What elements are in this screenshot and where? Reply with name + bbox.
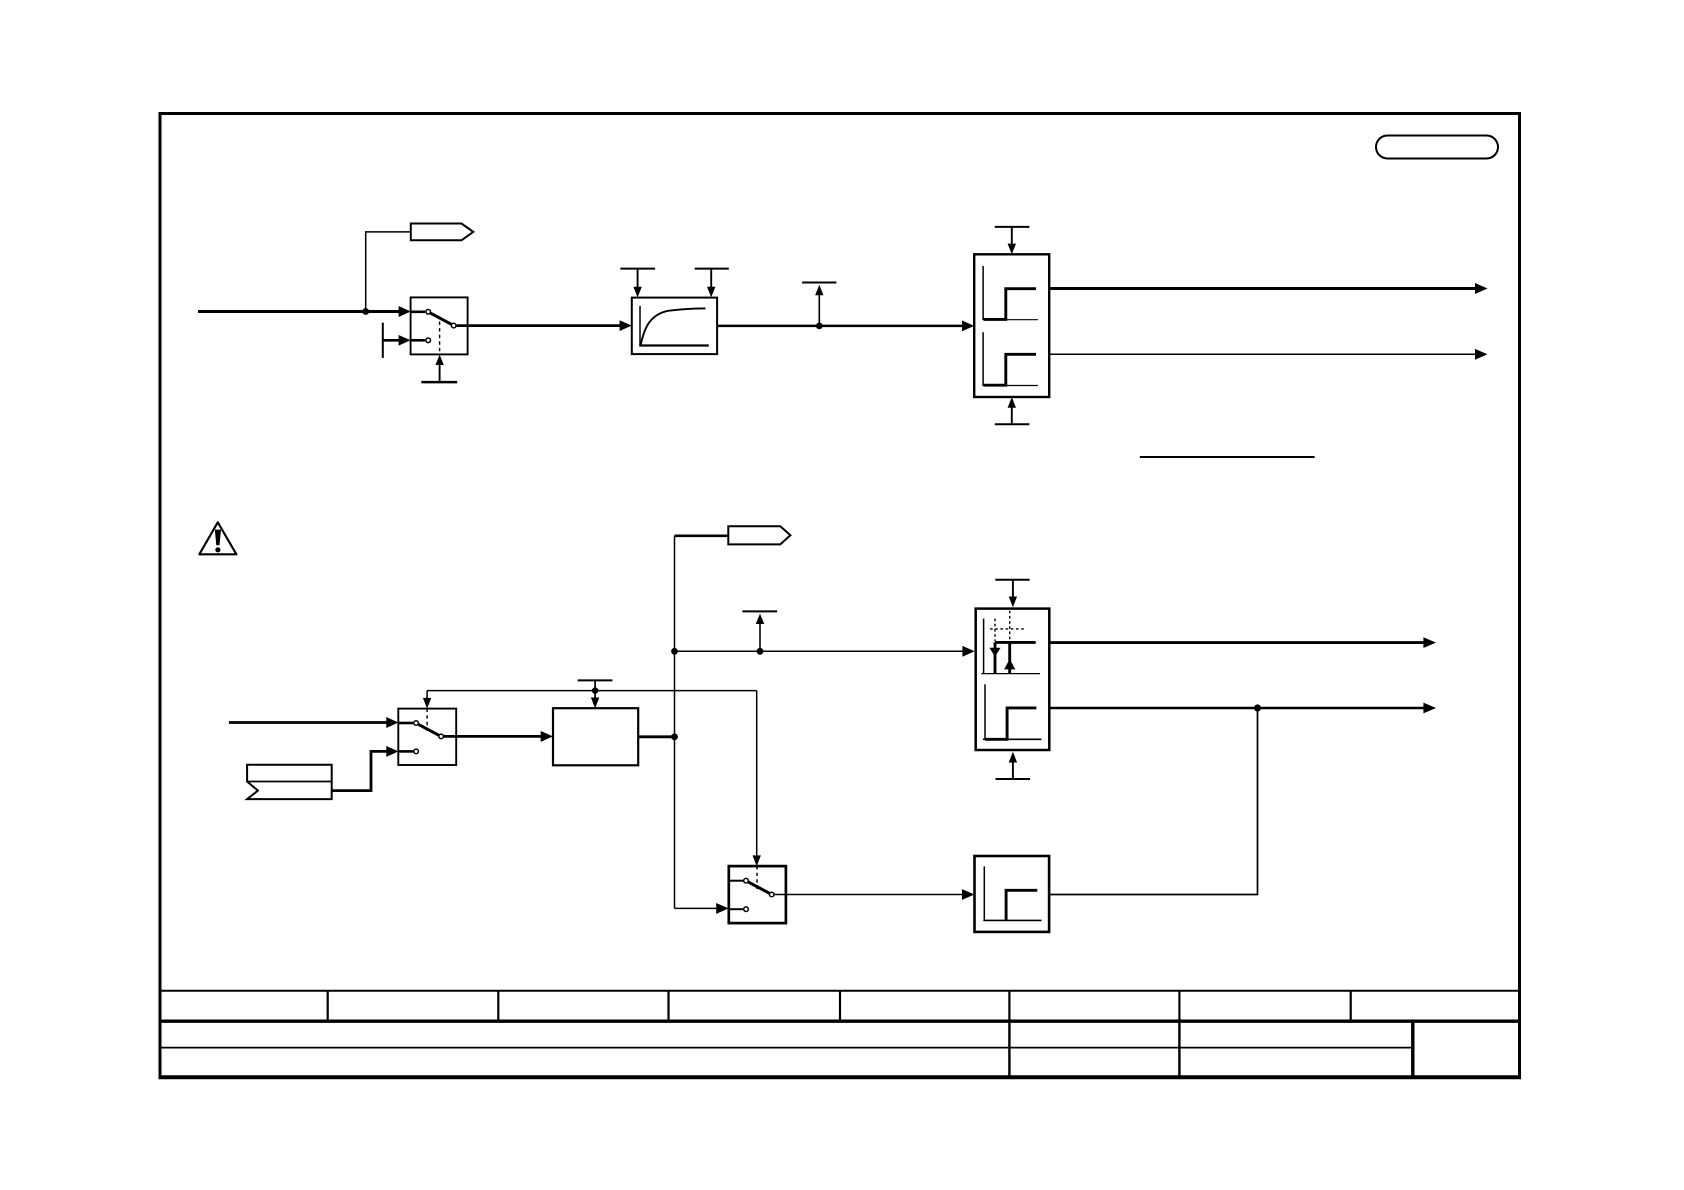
- wire: S2 to block K1: [444, 731, 553, 742]
- node: readout tap 2: [757, 648, 764, 655]
- param p-T1a above filter: [620, 269, 655, 298]
- table: header divider 6: [1178, 991, 1180, 1022]
- border frame: [160, 114, 1520, 1078]
- filter axes: [639, 306, 709, 346]
- banner middle line: [247, 781, 332, 783]
- wire: U1 output 1: [1049, 283, 1487, 294]
- table: header row top line: [159, 990, 1522, 992]
- switch S2 box: [398, 709, 456, 765]
- node: readout tap 1: [816, 323, 823, 330]
- param select below S1 (up arrow + bar): [421, 355, 457, 383]
- wire: bus to connector 2: [675, 534, 729, 537]
- wire: U1 output 2: [1049, 349, 1487, 360]
- filter block T1 (PT1 smoothing): [632, 298, 717, 355]
- node: param junction on control bus: [592, 687, 598, 693]
- wire: bus to switch S3 lower pin: [675, 903, 729, 914]
- table: header divider 7: [1350, 991, 1352, 1022]
- node: branch to connector 1: [362, 308, 369, 315]
- wire: filter to comparator U1: [717, 321, 974, 332]
- table: header divider 3: [667, 991, 669, 1022]
- U1 lower step symbol: [983, 332, 1038, 386]
- warning triangle: [199, 522, 236, 554]
- comparator U2 box: [976, 609, 1050, 750]
- switch S2 lever: [419, 724, 439, 735]
- banner (continuation marker): [247, 765, 332, 799]
- B1 step symbol: [983, 866, 1041, 920]
- connector flag 2 (signal output): [728, 526, 790, 544]
- filter exponential curve: [641, 308, 706, 344]
- wire: S1 to filter: [457, 320, 632, 331]
- wire: main input 2: [229, 717, 399, 728]
- node: bus tap to comparator U2: [671, 648, 678, 655]
- node: feedback junction: [1254, 704, 1261, 711]
- table: bottom border: [159, 1075, 1522, 1079]
- switch S1 box: [411, 297, 468, 354]
- param p-T1b above filter: [695, 269, 729, 298]
- U1 upper step symbol: [983, 266, 1038, 320]
- switch S1 pin stubs: [411, 312, 426, 341]
- readout r1 (up arrow to bar): [802, 283, 836, 326]
- title stadium (page label): [1376, 136, 1498, 159]
- wire: U2 output 1: [1049, 637, 1436, 648]
- U2 hysteresis symbol axes: [981, 619, 1040, 674]
- wire: control drop to S3: [753, 691, 761, 867]
- switch S2 contact circles: [414, 721, 444, 754]
- wire: bus to U2 input: [675, 646, 975, 657]
- U2 lower step symbol: [983, 684, 1042, 739]
- wire: K1 output to bus: [638, 735, 674, 738]
- table: lower divider 1: [1008, 1021, 1010, 1077]
- switch S3 box: [729, 866, 786, 923]
- table: header divider 1: [327, 991, 329, 1022]
- block K1 (delay): [553, 708, 638, 765]
- switch S3 dashed control line: [756, 866, 758, 889]
- table: middle row line: [160, 1047, 1413, 1049]
- switch S3 pin stubs: [729, 881, 743, 910]
- label rule (underline): [1140, 456, 1315, 458]
- wire: control bus horizontal: [427, 690, 757, 692]
- node: bus junction at K1 output: [671, 733, 678, 740]
- param bottom U2: [996, 752, 1031, 779]
- hysteresis block B1: [975, 856, 1050, 932]
- switch S2 pin stubs: [398, 723, 413, 751]
- comparator U1 box: [974, 254, 1049, 397]
- switch S3 lever: [748, 882, 769, 893]
- table: stamp box edge: [1411, 1021, 1414, 1077]
- wire: control drop to S2: [423, 691, 431, 709]
- wire: main input 1: [198, 306, 411, 317]
- switch S1 dashed control line: [439, 322, 441, 355]
- table: lower divider 2: [1178, 1021, 1180, 1077]
- wire: U2 output 2: [1049, 703, 1436, 714]
- switch S1 contact circles: [426, 310, 456, 343]
- switch S3 contact circles: [744, 878, 774, 911]
- U2 hysteresis dashed thresholds: [990, 611, 1026, 641]
- connector flag 1 (signal output): [411, 224, 474, 241]
- wire: S3 to hysteresis block: [775, 889, 975, 900]
- table: header divider 2: [497, 991, 499, 1022]
- wire: vertical bus: [674, 536, 676, 909]
- wire: B1 output feedback to output 2: [1049, 708, 1257, 895]
- param top U2: [995, 580, 1029, 608]
- U2 hysteresis top level: [995, 641, 1036, 644]
- table: header divider 4: [839, 991, 841, 1022]
- switch S2 dashed control line: [426, 709, 428, 731]
- fixed value input bar into S1 lower pin: [383, 323, 411, 358]
- param p2 above K1 (bar + arrow): [578, 680, 613, 708]
- U2 hysteresis down edge with arrow: [989, 642, 1000, 673]
- readout r2 (up arrow to bar): [742, 611, 777, 651]
- wire: banner to S2 lower pin: [332, 746, 399, 791]
- param top U1: [995, 227, 1030, 254]
- param bottom U1: [995, 397, 1030, 424]
- switch S1 lever: [431, 313, 452, 324]
- table: thick separator line: [159, 1020, 1522, 1023]
- wire: branch up to connector 1: [366, 232, 411, 312]
- U2 hysteresis up edge with arrow: [1004, 642, 1015, 673]
- table: header divider 5: [1008, 991, 1010, 1022]
